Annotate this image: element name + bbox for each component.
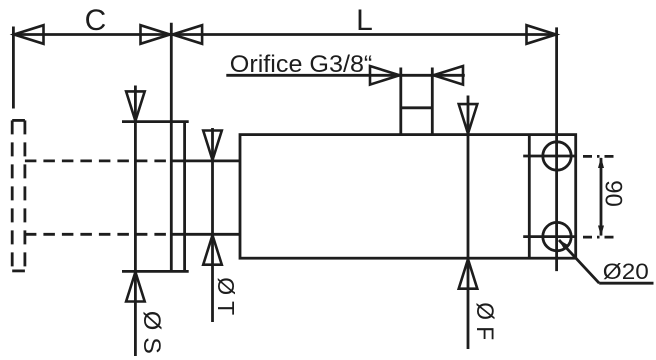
svg-text:Ø T: Ø T: [213, 277, 239, 315]
port divider: [401, 106, 433, 109]
arrow T top: [203, 131, 222, 161]
orifice arrow right: [434, 66, 464, 85]
svg-text:C: C: [85, 4, 107, 37]
crosshair top hole: [523, 155, 576, 158]
dashed end plate extended, right edge: [23, 120, 26, 271]
svg-text:90: 90: [600, 180, 627, 207]
arrow L left: [173, 25, 203, 44]
arrow T bottom: [203, 235, 222, 265]
rod top line: [171, 159, 240, 162]
svg-text:Ø20: Ø20: [603, 259, 649, 284]
clevis hole top: [543, 142, 571, 170]
crosshair bottom hole: [523, 235, 576, 238]
extension line right (L dimension, clevis hole centerline): [555, 27, 558, 271]
flange right edge: [183, 122, 186, 272]
leader arrowhead: [559, 240, 569, 250]
centerline dash-dot top right: [583, 155, 618, 158]
arrow C right: [141, 25, 171, 44]
svg-text:L: L: [356, 4, 373, 37]
centerline dash-dot bottom right: [583, 236, 617, 239]
dimension line 90: [600, 158, 603, 236]
rod bottom line: [171, 233, 240, 236]
end cap weld line: [528, 135, 531, 259]
arrow 90 top: [598, 157, 604, 168]
flange top edge: [122, 120, 189, 123]
arrow C left: [14, 25, 44, 44]
arrow S top: [126, 91, 145, 121]
dim line S (vertical shaft): [134, 86, 137, 357]
dimension line C: [13, 33, 171, 36]
flange bottom edge: [122, 270, 189, 273]
svg-text:Ø S: Ø S: [138, 311, 165, 354]
dim line F (vertical shaft): [467, 96, 470, 350]
dashed end plate extended, left edge: [11, 120, 14, 271]
extension line mid (C/L junction, through flange): [170, 23, 173, 272]
dim line T (vertical shaft): [211, 128, 214, 322]
leader diagonal (hole diameter): [559, 240, 599, 283]
extension line left (C dimension): [12, 27, 15, 109]
orifice arrow left: [370, 66, 400, 85]
arrow F top: [459, 104, 478, 134]
dashed end plate extended, bottom edge: [12, 269, 25, 272]
arrow 90 bottom: [598, 226, 604, 237]
clevis hole bottom: [543, 222, 571, 250]
port right wall: [431, 68, 434, 135]
svg-text:Ø F: Ø F: [471, 302, 498, 340]
leader horizontal: [599, 282, 653, 285]
dimension line L: [171, 33, 556, 36]
orifice leader line (underline): [226, 74, 464, 77]
arrow S bottom: [126, 272, 145, 302]
dashed rod bottom (hidden): [25, 233, 170, 236]
arrow F bottom: [459, 259, 478, 289]
arrow L right: [527, 25, 557, 44]
dashed end plate extended, top edge: [12, 119, 25, 122]
port left wall: [399, 68, 402, 135]
cylinder body: [240, 135, 576, 259]
dashed rod top (hidden): [25, 159, 170, 162]
